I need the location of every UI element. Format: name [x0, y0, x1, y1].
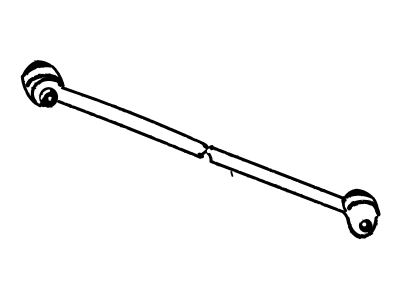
left bushing lower-left fill wedge	[39, 102, 47, 109]
break symbol white loop hole	[206, 148, 211, 153]
right bushing inner sleeve (filled)	[359, 219, 373, 233]
left bushing left silhouette	[22, 77, 40, 106]
rod lower line (left segment)	[59, 102, 200, 158]
right bushing lower-right fill wedge	[366, 228, 373, 235]
left bushing front face ellipse arc	[32, 79, 63, 101]
break symbol thick end bar	[202, 143, 210, 150]
left bushing inner sleeve (filled)	[39, 87, 58, 107]
right bushing back rim crescent (filled)	[344, 190, 373, 198]
left bushing back rim crescent (filled)	[22, 61, 53, 78]
right bushing face bottom emphasis	[352, 232, 365, 237]
rod lower line (right segment)	[211, 161, 343, 211]
rod upper line (right segment)	[211, 147, 345, 200]
small tick on lower line	[231, 172, 232, 176]
right bushing center hole	[362, 222, 366, 226]
right bushing right silhouette	[374, 199, 379, 214]
rod upper line (left segment)	[62, 88, 203, 144]
right bushing front face ellipse arc	[348, 218, 377, 237]
left bushing center hole	[48, 97, 52, 101]
left bushing middle ridge arc	[28, 76, 60, 85]
break symbol right blob	[209, 145, 216, 151]
break symbol left S-curve	[200, 144, 207, 158]
right bushing left silhouette	[343, 199, 345, 211]
break symbol left blob	[196, 151, 205, 159]
left bushing inner highlight arc	[42, 91, 49, 99]
right bushing middle ridge arc	[349, 202, 378, 214]
break symbol right S-curve	[207, 147, 212, 162]
left bushing right silhouette	[53, 67, 63, 84]
right bushing bottom silhouette	[343, 212, 360, 238]
